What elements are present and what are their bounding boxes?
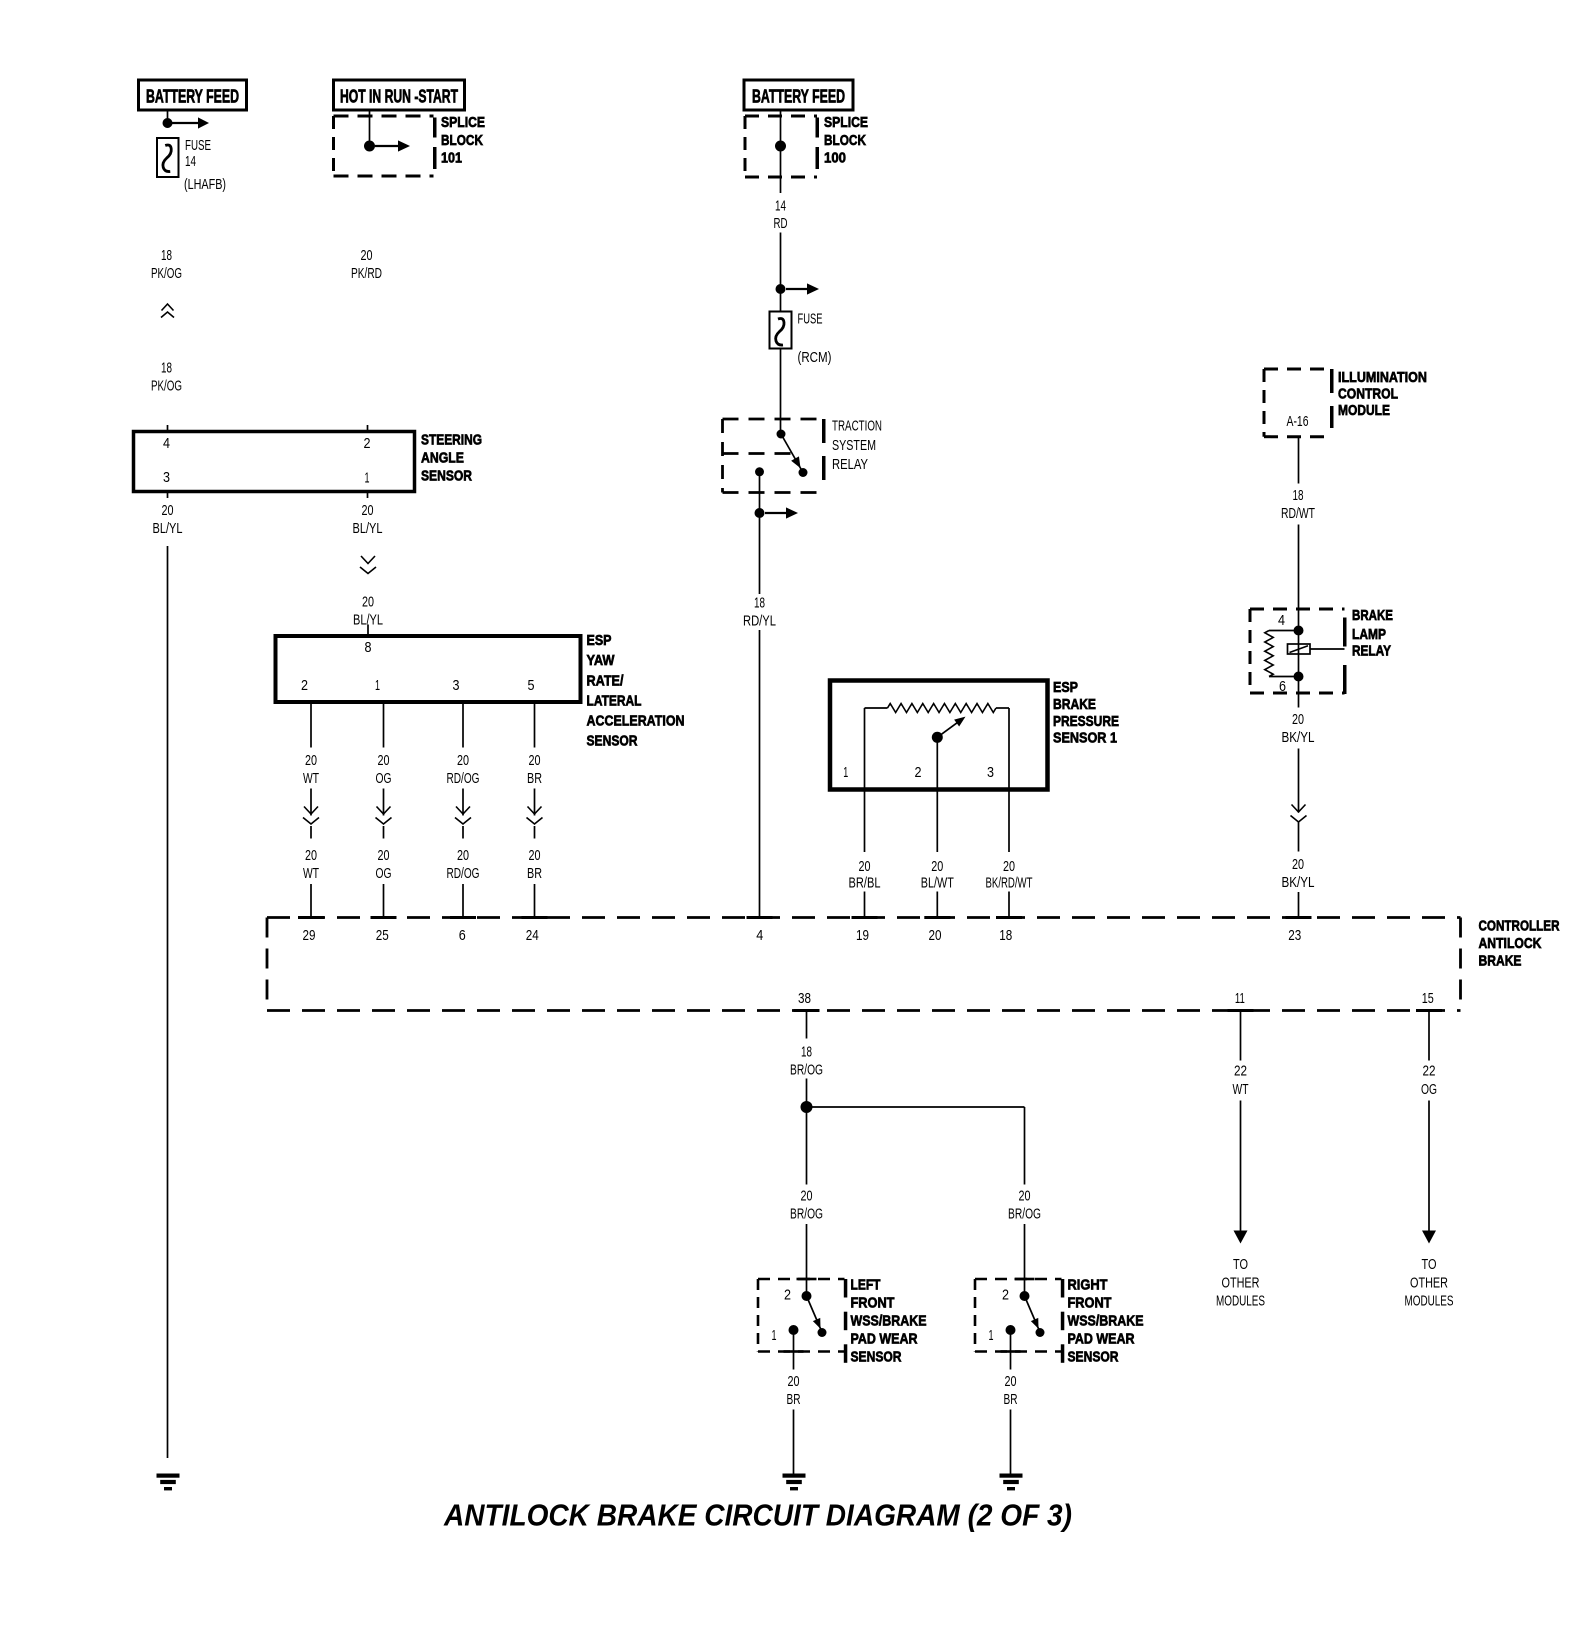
svg-text:20: 20 xyxy=(788,1373,800,1390)
svg-text:BR: BR xyxy=(527,770,542,787)
svg-text:RD/OG: RD/OG xyxy=(447,770,480,787)
svg-text:BATTERY FEED: BATTERY FEED xyxy=(752,87,845,107)
svg-text:HOT IN RUN -START: HOT IN RUN -START xyxy=(340,87,458,107)
svg-text:20: 20 xyxy=(305,752,317,769)
svg-text:1: 1 xyxy=(365,470,370,487)
svg-text:20: 20 xyxy=(1003,858,1015,875)
svg-text:MODULES: MODULES xyxy=(1216,1293,1265,1310)
svg-text:MODULES: MODULES xyxy=(1405,1293,1454,1310)
svg-text:PRESSURE: PRESSURE xyxy=(1053,713,1119,730)
svg-text:ANGLE: ANGLE xyxy=(421,450,464,467)
svg-text:FRONT: FRONT xyxy=(1068,1294,1112,1311)
svg-text:RELAY: RELAY xyxy=(832,456,868,473)
svg-text:3: 3 xyxy=(163,469,170,486)
svg-text:YAW: YAW xyxy=(587,652,616,669)
svg-text:STEERING: STEERING xyxy=(421,432,482,449)
svg-text:BRAKE: BRAKE xyxy=(1479,953,1522,970)
svg-text:1: 1 xyxy=(772,1327,777,1344)
svg-text:20: 20 xyxy=(457,752,469,769)
svg-text:WT: WT xyxy=(303,770,319,787)
svg-text:20: 20 xyxy=(362,594,374,611)
svg-text:4: 4 xyxy=(1278,612,1285,629)
svg-text:18: 18 xyxy=(999,927,1012,944)
svg-text:2: 2 xyxy=(301,677,308,694)
svg-text:18: 18 xyxy=(161,360,172,377)
svg-text:MODULE: MODULE xyxy=(1338,402,1390,419)
svg-text:BK/YL: BK/YL xyxy=(1282,729,1315,746)
svg-text:BK/YL: BK/YL xyxy=(1282,874,1315,891)
svg-text:19: 19 xyxy=(856,927,869,944)
svg-text:WSS/BRAKE: WSS/BRAKE xyxy=(851,1312,927,1329)
svg-text:PAD WEAR: PAD WEAR xyxy=(1068,1330,1135,1347)
svg-text:LEFT: LEFT xyxy=(851,1276,881,1293)
svg-text:RELAY: RELAY xyxy=(1352,642,1391,659)
svg-text:4: 4 xyxy=(756,927,763,944)
svg-text:SENSOR 1: SENSOR 1 xyxy=(1053,730,1117,747)
svg-text:ESP: ESP xyxy=(587,632,612,649)
svg-text:6: 6 xyxy=(1279,678,1286,695)
svg-text:BR: BR xyxy=(787,1391,801,1408)
svg-text:BR/BL: BR/BL xyxy=(849,875,881,892)
svg-text:BATTERY FEED: BATTERY FEED xyxy=(146,87,239,107)
svg-text:38: 38 xyxy=(798,990,811,1007)
svg-text:100: 100 xyxy=(824,149,846,166)
svg-text:20: 20 xyxy=(1005,1373,1017,1390)
svg-text:PK/RD: PK/RD xyxy=(351,265,382,282)
svg-text:A-16: A-16 xyxy=(1287,413,1309,430)
svg-text:SYSTEM: SYSTEM xyxy=(832,437,876,454)
svg-text:SENSOR: SENSOR xyxy=(421,468,472,485)
svg-text:14: 14 xyxy=(775,197,786,214)
svg-text:ANTILOCK BRAKE CIRCUIT DIAGRAM: ANTILOCK BRAKE CIRCUIT DIAGRAM (2 OF 3) xyxy=(443,1498,1072,1533)
svg-text:BR: BR xyxy=(1004,1391,1018,1408)
svg-text:CONTROLLER: CONTROLLER xyxy=(1479,918,1560,935)
svg-text:20: 20 xyxy=(529,847,541,864)
svg-text:20: 20 xyxy=(378,847,390,864)
svg-text:BR/OG: BR/OG xyxy=(1008,1205,1041,1222)
svg-text:BLOCK: BLOCK xyxy=(441,132,483,149)
svg-text:20: 20 xyxy=(931,858,943,875)
svg-text:RIGHT: RIGHT xyxy=(1068,1276,1108,1293)
svg-text:LAMP: LAMP xyxy=(1352,626,1386,643)
svg-text:(RCM): (RCM) xyxy=(798,349,832,366)
svg-text:OG: OG xyxy=(376,865,392,882)
svg-text:1: 1 xyxy=(375,677,380,694)
svg-text:20: 20 xyxy=(361,247,373,264)
svg-text:SENSOR: SENSOR xyxy=(587,733,638,750)
svg-text:SPLICE: SPLICE xyxy=(824,114,868,131)
svg-text:BRAKE: BRAKE xyxy=(1352,607,1393,624)
svg-text:25: 25 xyxy=(376,927,389,944)
svg-text:BL/YL: BL/YL xyxy=(353,520,383,537)
svg-text:20: 20 xyxy=(859,858,871,875)
svg-text:14: 14 xyxy=(185,153,196,170)
svg-text:BR: BR xyxy=(527,865,542,882)
svg-text:2: 2 xyxy=(364,435,371,452)
svg-text:RD/WT: RD/WT xyxy=(1281,505,1315,522)
svg-text:3: 3 xyxy=(987,764,994,781)
svg-text:BL/YL: BL/YL xyxy=(153,520,183,537)
svg-text:SENSOR: SENSOR xyxy=(1068,1348,1119,1365)
svg-text:101: 101 xyxy=(441,149,462,166)
svg-text:2: 2 xyxy=(784,1287,791,1304)
svg-text:8: 8 xyxy=(365,639,372,656)
svg-text:20: 20 xyxy=(1019,1188,1031,1205)
svg-text:BR/OG: BR/OG xyxy=(790,1061,823,1078)
svg-text:20: 20 xyxy=(1292,711,1304,728)
svg-text:20: 20 xyxy=(162,502,174,519)
svg-text:FRONT: FRONT xyxy=(851,1294,895,1311)
svg-text:24: 24 xyxy=(526,927,539,944)
svg-text:WT: WT xyxy=(303,865,319,882)
svg-text:ILLUMINATION: ILLUMINATION xyxy=(1338,369,1427,386)
svg-text:BR/OG: BR/OG xyxy=(790,1205,823,1222)
svg-text:OTHER: OTHER xyxy=(1222,1275,1260,1292)
svg-text:20: 20 xyxy=(457,847,469,864)
svg-text:BLOCK: BLOCK xyxy=(824,132,866,149)
svg-text:23: 23 xyxy=(1288,927,1301,944)
svg-text:2: 2 xyxy=(915,764,922,781)
svg-text:20: 20 xyxy=(362,502,374,519)
svg-text:3: 3 xyxy=(453,677,460,694)
svg-text:FUSE: FUSE xyxy=(798,310,823,327)
svg-text:2: 2 xyxy=(1002,1287,1009,1304)
svg-text:RD/OG: RD/OG xyxy=(447,865,480,882)
svg-text:18: 18 xyxy=(801,1044,812,1061)
svg-text:TO: TO xyxy=(1422,1256,1437,1273)
svg-text:OG: OG xyxy=(376,770,392,787)
svg-text:20: 20 xyxy=(1292,856,1304,873)
svg-text:4: 4 xyxy=(163,435,170,452)
svg-text:11: 11 xyxy=(1235,990,1245,1007)
svg-text:RD: RD xyxy=(774,215,788,232)
svg-text:BL/WT: BL/WT xyxy=(921,875,954,892)
svg-text:1: 1 xyxy=(843,764,848,781)
svg-text:18: 18 xyxy=(1293,487,1304,504)
svg-text:22: 22 xyxy=(1423,1063,1436,1080)
svg-text:20: 20 xyxy=(378,752,390,769)
svg-text:BRAKE: BRAKE xyxy=(1053,696,1096,713)
svg-text:(LHAFB): (LHAFB) xyxy=(184,176,226,193)
svg-text:SENSOR: SENSOR xyxy=(851,1348,902,1365)
svg-text:OTHER: OTHER xyxy=(1410,1275,1448,1292)
svg-text:6: 6 xyxy=(459,927,466,944)
svg-text:20: 20 xyxy=(801,1188,813,1205)
svg-text:20: 20 xyxy=(929,927,942,944)
svg-text:TRACTION: TRACTION xyxy=(832,417,882,434)
svg-text:18: 18 xyxy=(161,247,172,264)
svg-text:1: 1 xyxy=(989,1327,994,1344)
svg-text:PK/OG: PK/OG xyxy=(151,265,182,282)
svg-text:ESP: ESP xyxy=(1053,679,1078,696)
svg-text:LATERAL: LATERAL xyxy=(587,692,642,709)
svg-text:WT: WT xyxy=(1233,1081,1249,1098)
svg-text:TO: TO xyxy=(1233,1256,1248,1273)
svg-text:ANTILOCK: ANTILOCK xyxy=(1479,935,1542,952)
svg-text:BK/RD/WT: BK/RD/WT xyxy=(986,875,1033,892)
svg-text:WSS/BRAKE: WSS/BRAKE xyxy=(1068,1312,1144,1329)
svg-text:18: 18 xyxy=(754,595,765,612)
svg-text:RATE/: RATE/ xyxy=(587,672,625,689)
svg-text:20: 20 xyxy=(529,752,541,769)
svg-text:ACCELERATION: ACCELERATION xyxy=(587,713,685,730)
svg-text:FUSE: FUSE xyxy=(185,137,211,154)
svg-text:OG: OG xyxy=(1421,1081,1437,1098)
svg-text:5: 5 xyxy=(528,677,535,694)
svg-text:22: 22 xyxy=(1234,1063,1247,1080)
svg-text:SPLICE: SPLICE xyxy=(441,114,485,131)
svg-text:CONTROL: CONTROL xyxy=(1338,386,1398,403)
svg-text:15: 15 xyxy=(1422,990,1434,1007)
svg-text:PK/OG: PK/OG xyxy=(151,377,182,394)
svg-text:PAD WEAR: PAD WEAR xyxy=(851,1330,918,1347)
svg-text:20: 20 xyxy=(305,847,317,864)
svg-text:RD/YL: RD/YL xyxy=(743,612,776,629)
svg-text:29: 29 xyxy=(303,927,316,944)
